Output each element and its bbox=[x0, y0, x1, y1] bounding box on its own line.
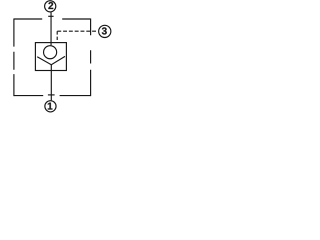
pilot line vertical bbox=[56, 31, 58, 42]
port 3 label circle bbox=[99, 25, 111, 37]
envelope right edge bbox=[90, 19, 92, 97]
envelope bottom edge right segment bbox=[60, 95, 91, 97]
port 1 tick bbox=[48, 94, 55, 96]
seat V bbox=[37, 56, 65, 64]
envelope left edge bbox=[13, 19, 15, 97]
port 3 digit bbox=[102, 27, 107, 34]
envelope top edge left segment bbox=[14, 18, 42, 20]
port 1 digit bbox=[48, 103, 53, 110]
port 2 line bbox=[50, 12, 52, 45]
port 1 line bbox=[50, 65, 52, 101]
valve body box bbox=[35, 43, 66, 71]
envelope bottom edge left segment bbox=[14, 95, 43, 97]
port 2 label circle bbox=[45, 1, 56, 12]
envelope top edge right segment bbox=[62, 18, 90, 20]
port 1 label circle bbox=[45, 101, 56, 112]
port 2 tick bbox=[48, 15, 53, 17]
pilot line horizontal bbox=[57, 30, 96, 32]
port 2 digit bbox=[48, 2, 53, 9]
ball bbox=[44, 46, 57, 59]
